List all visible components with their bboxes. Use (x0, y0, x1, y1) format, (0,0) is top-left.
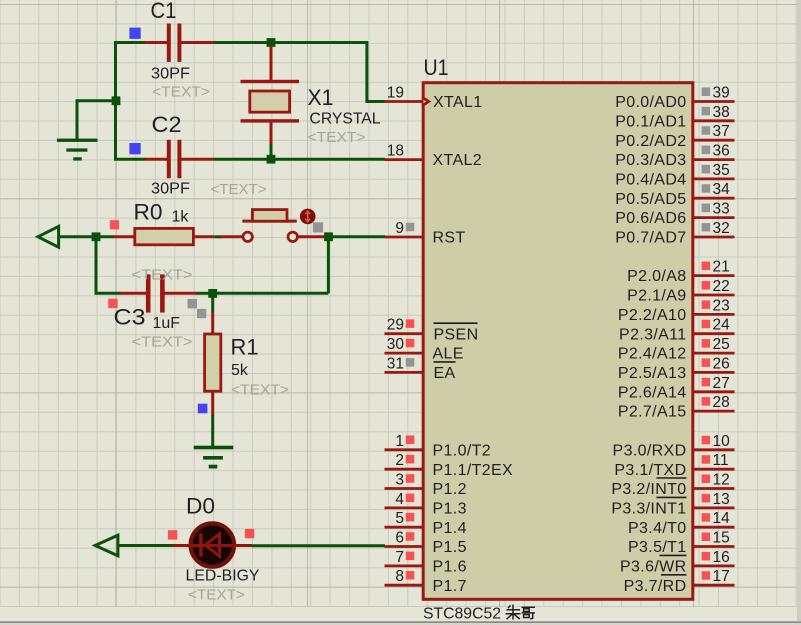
marker square red C3 (108, 299, 117, 308)
svg-text:25: 25 (713, 336, 730, 353)
ground (left) (57, 139, 98, 161)
svg-text:D0: D0 (186, 493, 215, 518)
svg-text:23: 23 (713, 297, 730, 314)
svg-text:C2: C2 (152, 112, 182, 137)
pin 35 P0.4/AD4 (right) (615, 162, 734, 189)
svg-text:12: 12 (713, 472, 730, 489)
svg-text:29: 29 (387, 317, 404, 334)
marker square gray C3 b (197, 309, 206, 318)
wire LED to P1.5 (252, 544, 386, 547)
pin 1 P1.0/T2 (left) (385, 433, 491, 460)
svg-text:39: 39 (713, 85, 730, 102)
node ground stub (112, 96, 121, 105)
marker square blue C1 (129, 28, 140, 39)
wire C3 node to button node (213, 292, 329, 295)
svg-text:<TEXT>: <TEXT> (211, 181, 267, 198)
svg-text:<TEXT>: <TEXT> (152, 84, 210, 101)
svg-text:P2.3/A11: P2.3/A11 (619, 326, 686, 343)
svg-text:33: 33 (713, 201, 730, 218)
pin 33 P0.6/AD6 (right) (615, 201, 734, 228)
svg-text:P3.2/INT0: P3.2/INT0 (611, 481, 686, 498)
wire C1 left (114, 41, 145, 44)
svg-text:9: 9 (395, 220, 404, 237)
svg-text:R0: R0 (134, 200, 163, 225)
pin 13 P3.3/INT1 (right) (611, 491, 734, 518)
svg-text:X1: X1 (308, 85, 334, 110)
crystal X1 (241, 45, 300, 145)
wire C3 right (197, 292, 210, 295)
pin 38 P0.1/AD1 (right) (615, 104, 734, 131)
pin 24 P2.3/A11 (right) (619, 317, 734, 344)
pin 26 P2.5/A13 (right) (618, 355, 735, 382)
marker square blue C2 (129, 143, 140, 154)
wire C2 left (114, 158, 145, 161)
svg-text:35: 35 (713, 162, 730, 179)
svg-text:RST: RST (433, 230, 466, 247)
svg-text:STC89C52: STC89C52 (423, 605, 501, 622)
svg-text:P2.4/A12: P2.4/A12 (618, 346, 687, 363)
svg-text:P3.0/RXD: P3.0/RXD (613, 442, 687, 459)
svg-text:R1: R1 (231, 334, 259, 359)
wire left vertical C1-C2 (114, 41, 117, 160)
svg-text:31: 31 (387, 355, 404, 372)
svg-text:XTAL2: XTAL2 (433, 152, 482, 169)
pin 5 P1.4 (left) (385, 510, 467, 537)
svg-text:C1: C1 (151, 0, 177, 23)
svg-text:30PF: 30PF (151, 181, 190, 198)
pin 7 P1.6 (left) (385, 549, 467, 576)
svg-text:1: 1 (395, 433, 404, 450)
svg-text:24: 24 (713, 317, 731, 334)
svg-text:ALE: ALE (433, 346, 464, 363)
pin 11 P3.1/TXD (right) (614, 452, 734, 479)
marker square blue R1 (198, 404, 208, 414)
pin 8 P1.7 (left) (385, 568, 467, 595)
marker square gray button (313, 222, 323, 232)
pin 18 XTAL2 (left) (385, 143, 482, 170)
wire arrow to LED (118, 544, 173, 547)
pin 25 P2.4/A12 (right) (618, 336, 735, 363)
ground (R1) (194, 446, 234, 469)
svg-text:P1.7: P1.7 (433, 578, 467, 595)
svg-text:5k: 5k (231, 362, 249, 379)
button actuator (300, 209, 316, 225)
svg-text:P0.4/AD4: P0.4/AD4 (615, 172, 686, 189)
pin 34 P0.5/AD5 (right) (615, 181, 734, 208)
svg-text:P3.5/T1: P3.5/T1 (628, 539, 686, 556)
svg-text:10: 10 (713, 433, 731, 450)
IC U1 STC89C52 body (423, 83, 693, 600)
pin 30 ALE (left) (385, 336, 464, 363)
svg-text:P3.3/INT1: P3.3/INT1 (611, 501, 686, 518)
pin 21 P2.0/A8 (right) (627, 259, 734, 286)
svg-text:P0.5/AD5: P0.5/AD5 (615, 191, 686, 208)
svg-text:P0.6/AD6: P0.6/AD6 (615, 210, 686, 227)
input terminal arrow (LED net) (95, 535, 118, 556)
pin 16 P3.6/WR (right) (620, 549, 734, 576)
node C3/R1 (208, 289, 217, 298)
svg-text:4: 4 (395, 491, 404, 508)
input terminal arrow (RST net) (38, 226, 59, 247)
svg-text:P3.1/TXD: P3.1/TXD (614, 462, 686, 479)
pin 6 P1.5 (left) (385, 530, 467, 557)
svg-text:P2.5/A13: P2.5/A13 (618, 365, 687, 382)
LED D0 (173, 523, 253, 566)
svg-text:17: 17 (713, 568, 730, 585)
svg-text:15: 15 (713, 530, 730, 547)
svg-text:P1.0/T2: P1.0/T2 (433, 442, 491, 459)
svg-text:11: 11 (713, 452, 729, 469)
resistor R1 (205, 312, 221, 415)
svg-text:36: 36 (713, 143, 730, 160)
svg-text:P1.2: P1.2 (433, 481, 467, 498)
svg-text:8: 8 (395, 568, 404, 585)
node crystal top (267, 38, 276, 47)
window bottom edge (0, 607, 801, 621)
svg-text:P0.0/AD0: P0.0/AD0 (615, 94, 686, 111)
svg-text:1uF: 1uF (153, 315, 181, 332)
pin 27 P2.6/A14 (right) (618, 375, 735, 402)
svg-text:1k: 1k (172, 208, 190, 225)
svg-text:2: 2 (395, 452, 404, 469)
svg-text:P1.3: P1.3 (433, 501, 467, 518)
pin 2 P1.1/T2EX (left) (385, 452, 514, 479)
pin 37 P0.2/AD2 (right) (615, 123, 734, 150)
wire R1 to ground (211, 415, 214, 447)
svg-text:P1.1/T2EX: P1.1/T2EX (433, 462, 514, 479)
pin 39 P0.0/AD0 (right) (615, 85, 734, 112)
svg-text:P1.5: P1.5 (433, 539, 467, 556)
capacitor C1 (145, 24, 214, 62)
svg-text:P1.6: P1.6 (433, 559, 467, 576)
svg-text:28: 28 (713, 394, 730, 411)
svg-text:14: 14 (713, 510, 731, 527)
pin 32 P0.7/AD7 (right) (615, 220, 734, 247)
svg-text:<TEXT>: <TEXT> (308, 129, 366, 146)
svg-text:CRYSTAL: CRYSTAL (310, 110, 381, 127)
svg-text:U1: U1 (424, 55, 449, 80)
svg-text:5: 5 (395, 510, 404, 527)
marker square red D0 a (168, 530, 177, 539)
svg-text:P3.4/T0: P3.4/T0 (628, 520, 686, 537)
svg-text:18: 18 (387, 143, 404, 160)
svg-text:<TEXT>: <TEXT> (231, 381, 289, 398)
node crystal bottom (267, 155, 276, 164)
svg-text:EA: EA (434, 365, 456, 382)
svg-text:<TEXT>: <TEXT> (132, 266, 193, 283)
svg-text:P0.2/AD2: P0.2/AD2 (615, 133, 686, 150)
svg-text:PSEN: PSEN (434, 326, 479, 343)
pin 19 XTAL1 (left) (385, 85, 483, 112)
svg-text:C3: C3 (114, 304, 146, 329)
node R0 left (92, 232, 101, 241)
svg-text:XTAL1: XTAL1 (433, 94, 482, 111)
pin 28 P2.7/A15 (right) (618, 394, 735, 421)
push button (221, 210, 326, 242)
svg-text:38: 38 (713, 104, 730, 121)
pin 10 P3.0/RXD (right) (613, 433, 735, 460)
svg-text:30PF: 30PF (151, 66, 190, 83)
svg-text:32: 32 (713, 220, 730, 237)
wire C1 to crystal top and XTAL1 (214, 43, 385, 102)
svg-text:P3.7/RD: P3.7/RD (624, 578, 687, 595)
pin 22 P2.1/A9 (right) (627, 278, 734, 305)
svg-text:P2.6/A14: P2.6/A14 (618, 384, 687, 401)
svg-text:27: 27 (713, 375, 730, 392)
svg-text:21: 21 (713, 259, 730, 276)
svg-text:16: 16 (713, 549, 730, 566)
svg-text:P1.4: P1.4 (433, 520, 467, 537)
svg-text:22: 22 (713, 278, 730, 295)
wire node to R1 (211, 297, 214, 312)
wire button to RST pin (326, 235, 386, 238)
svg-text:26: 26 (713, 355, 730, 372)
wire R0 node down to C3 (96, 237, 121, 293)
pin 23 P2.2/A10 (right) (618, 297, 735, 324)
pin 3 P1.2 (left) (385, 472, 467, 499)
wire crystal bottom (270, 144, 273, 159)
svg-text:P0.1/AD1: P0.1/AD1 (615, 113, 686, 130)
resistor R0 (114, 228, 215, 244)
svg-text:P2.1/A9: P2.1/A9 (627, 288, 686, 305)
pin 17 P3.7/RD (right) (624, 568, 735, 595)
pin 12 P3.2/INT0 (right) (611, 472, 734, 499)
svg-text:7: 7 (395, 549, 404, 566)
svg-text:19: 19 (387, 85, 404, 102)
wire button node down (327, 237, 330, 293)
pin 4 P1.3 (left) (385, 491, 467, 518)
svg-text:P2.7/A15: P2.7/A15 (618, 404, 687, 421)
svg-text:<TEXT>: <TEXT> (132, 334, 193, 351)
svg-text:P0.7/AD7: P0.7/AD7 (615, 230, 686, 247)
marker square red D0 b (245, 529, 254, 538)
svg-text:P0.3/AD3: P0.3/AD3 (615, 152, 686, 169)
svg-text:P2.2/A10: P2.2/A10 (618, 307, 687, 324)
wire ground stub (77, 101, 116, 139)
pin 29 PSEN (left) (385, 317, 479, 344)
wire R0 to button (214, 235, 221, 238)
svg-text:LED-BIGY: LED-BIGY (186, 567, 260, 584)
svg-text:6: 6 (395, 530, 404, 547)
pin 31 EA (left) (385, 355, 456, 382)
wire C2 to XTAL2 (214, 158, 385, 161)
marker square red R0 (110, 220, 119, 229)
svg-text:13: 13 (713, 491, 730, 508)
capacitor C2 (145, 140, 214, 178)
pin 15 P3.5/T1 (right) (628, 530, 734, 557)
pin 14 P3.4/T0 (right) (628, 510, 734, 537)
window right edge (797, 0, 801, 621)
svg-text:34: 34 (713, 181, 731, 198)
node button right (324, 232, 333, 241)
capacitor C3 (120, 274, 198, 312)
svg-text:<TEXT>: <TEXT> (188, 587, 245, 604)
pin 36 P0.3/AD3 (right) (615, 143, 734, 170)
pin 9 RST (left) (385, 220, 466, 247)
label 朱哥 (drawn strokes) (506, 605, 536, 620)
svg-text:P2.0/A8: P2.0/A8 (627, 268, 686, 285)
svg-text:37: 37 (713, 123, 730, 140)
svg-text:3: 3 (395, 472, 404, 489)
svg-text:30: 30 (387, 336, 405, 353)
wire arrow to R0 (59, 235, 114, 238)
svg-text:P3.6/WR: P3.6/WR (620, 559, 686, 576)
marker square gray C3 a (188, 299, 198, 309)
